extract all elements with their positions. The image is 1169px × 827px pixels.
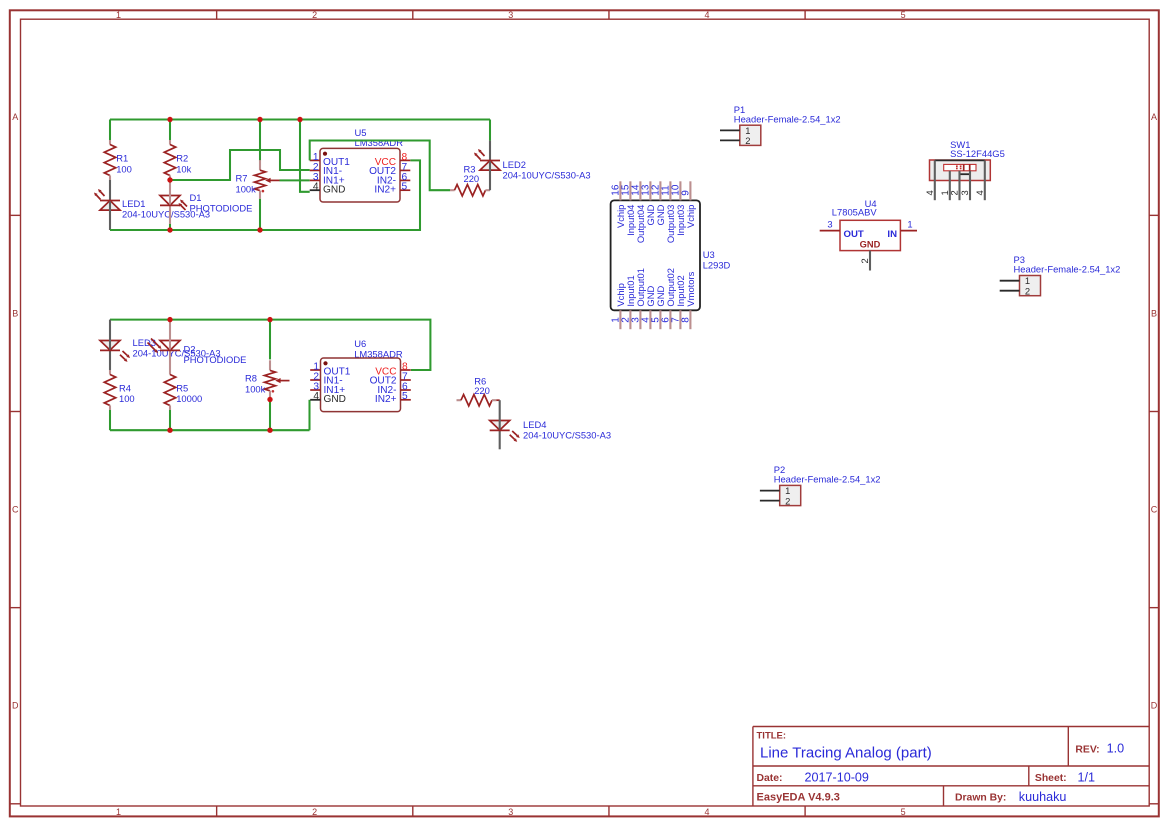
U3 pin 9 Vchip	[689, 181, 691, 200]
svg-text:R5: R5	[176, 383, 188, 394]
wire bottom rail net2	[110, 160, 420, 230]
wire D1 to bottom rail	[169, 224, 171, 230]
wire R7 bottom to rail	[259, 199, 261, 230]
junction rail2 / R8	[267, 317, 272, 322]
svg-text:Header-Female-2.54_1x2: Header-Female-2.54_1x2	[734, 113, 841, 124]
svg-text:GND: GND	[323, 185, 345, 196]
svg-text:C: C	[1151, 505, 1158, 515]
P1 pin 1	[720, 129, 740, 131]
svg-text:1: 1	[116, 10, 121, 20]
svg-text:5: 5	[402, 182, 408, 193]
U3 pin 8 Vmotors	[689, 310, 691, 329]
svg-text:C: C	[12, 505, 19, 515]
svg-text:Vchip: Vchip	[685, 205, 696, 228]
U3 pin 13 GND	[649, 181, 651, 200]
U5 pin 3 IN1+	[310, 179, 320, 181]
svg-text:A: A	[1151, 112, 1157, 122]
op-amp U5 box	[320, 148, 400, 202]
svg-text:Header-Female-2.54_1x2: Header-Female-2.54_1x2	[774, 474, 881, 485]
svg-text:2: 2	[745, 135, 750, 146]
photodiode D1	[160, 196, 180, 206]
U3 pin 2 Input01	[629, 310, 631, 329]
svg-text:D: D	[12, 701, 19, 711]
svg-text:IN: IN	[887, 229, 897, 240]
U3 pin 11 Output03	[669, 181, 671, 200]
SW1 pin 2	[958, 171, 960, 200]
connector P3 body	[1020, 276, 1041, 296]
P2 pin 2	[760, 500, 780, 502]
U3 pin 7 Input02	[679, 310, 681, 329]
wire R5 to bottom rail	[169, 410, 171, 430]
svg-text:100: 100	[116, 163, 132, 174]
svg-text:LED2: LED2	[503, 159, 526, 170]
svg-text:Line Tracing Analog (part): Line Tracing Analog (part)	[760, 745, 932, 762]
svg-text:OUT: OUT	[844, 229, 864, 240]
svg-text:A: A	[12, 112, 18, 122]
resistor R2	[169, 140, 171, 145]
IC U3 box	[611, 200, 700, 310]
U5 pin 4 GND	[310, 189, 320, 191]
U5 pin 5 IN2+	[400, 189, 410, 191]
regulator U4 box	[840, 220, 900, 250]
svg-text:1: 1	[907, 218, 912, 229]
connector P1 body	[740, 125, 761, 145]
U4 pin 3 OUT	[820, 230, 840, 232]
SW1 pin 4	[984, 160, 986, 200]
junction rail2b / R5	[167, 428, 172, 433]
U6 pin 7 OUT2	[401, 379, 411, 381]
svg-text:2: 2	[1025, 285, 1030, 296]
svg-text:9: 9	[681, 190, 692, 196]
U3 pin 1 Vchip	[619, 310, 621, 329]
resistor R1	[109, 140, 111, 145]
junction top rail / R2	[167, 117, 172, 122]
SW1 pin 1	[949, 171, 951, 200]
svg-text:EasyEDA V4.9.3: EasyEDA V4.9.3	[757, 792, 840, 804]
SW1 pin 3	[969, 171, 971, 200]
wire R8 bottom to rail	[269, 398, 271, 430]
SW1 pin 4	[934, 160, 936, 200]
svg-text:Date:: Date:	[757, 773, 783, 784]
U4 pin 2 GND	[869, 251, 871, 271]
svg-text:4: 4	[313, 182, 319, 193]
P3 pin 1	[1000, 280, 1020, 282]
U6 pin 5 IN2+	[401, 399, 411, 401]
svg-text:U5: U5	[355, 127, 367, 138]
resistor R4	[109, 370, 111, 375]
U6 pin 2 IN1-	[310, 379, 320, 381]
svg-text:L7805ABV: L7805ABV	[832, 207, 878, 218]
U5 pin 8 VCC	[400, 159, 410, 161]
potentiometer R7	[259, 160, 261, 170]
svg-text:R8: R8	[245, 373, 257, 384]
svg-text:8: 8	[681, 317, 692, 323]
resistor R3	[450, 189, 455, 191]
wire R2 top drop	[169, 120, 171, 141]
P1 pin 2	[720, 139, 740, 141]
U3 pin 3 Output01	[639, 310, 641, 329]
svg-text:204-10UYC/S530-A3: 204-10UYC/S530-A3	[523, 429, 611, 440]
svg-text:B: B	[12, 308, 18, 318]
op-amp U6 box	[321, 358, 401, 412]
U6 pin 8 VCC	[401, 369, 411, 371]
svg-text:2: 2	[312, 10, 317, 20]
wire R7 top drop	[259, 120, 261, 161]
U3 pin 10 Input03	[679, 181, 681, 200]
svg-text:Sheet:: Sheet:	[1035, 773, 1067, 784]
wire R8 top drop	[269, 320, 271, 360]
U6 pin 1 OUT1	[310, 369, 320, 371]
svg-text:D: D	[1151, 701, 1158, 711]
resistor R6	[457, 399, 462, 401]
svg-text:Drawn By:: Drawn By:	[955, 793, 1006, 804]
U3 pin 5 GND	[659, 310, 661, 329]
switch SW1 body	[930, 160, 991, 181]
svg-text:4: 4	[704, 10, 709, 20]
svg-text:100k: 100k	[236, 184, 257, 195]
svg-text:GND: GND	[860, 240, 881, 250]
node R8 bottom junction	[267, 397, 272, 402]
wire R7 wiper to U5 pin3	[280, 179, 310, 181]
svg-text:GND: GND	[324, 394, 346, 405]
svg-text:1.0: 1.0	[1107, 742, 1125, 756]
wire top rail c2	[110, 320, 430, 370]
svg-text:4: 4	[924, 190, 935, 195]
svg-text:LM358ADR: LM358ADR	[355, 137, 404, 148]
U3 pin 12 GND	[659, 181, 661, 200]
svg-text:4: 4	[313, 391, 319, 402]
U5 pin 6 IN2-	[400, 179, 410, 181]
svg-text:4: 4	[704, 807, 709, 817]
wire top rail net1	[110, 118, 490, 120]
junction top rail / R7	[257, 117, 262, 122]
LED1	[100, 201, 120, 211]
svg-text:100: 100	[119, 393, 135, 404]
svg-text:3: 3	[508, 10, 513, 20]
connector P2 body	[780, 485, 801, 505]
U3 pin 14 Output04	[639, 181, 641, 200]
svg-text:2: 2	[785, 495, 790, 506]
node R2/D1 junction	[167, 177, 172, 182]
svg-text:10000: 10000	[176, 393, 202, 404]
P2 pin 1	[760, 490, 780, 492]
junction top rail / GND drop	[297, 117, 302, 122]
wire GND drop U5 pin4	[300, 120, 310, 192]
U3 pin 15 Input04	[629, 181, 631, 200]
svg-text:PHOTODIODE: PHOTODIODE	[190, 202, 253, 213]
svg-text:220: 220	[474, 385, 490, 396]
svg-text:PHOTODIODE: PHOTODIODE	[184, 354, 247, 365]
title block	[752, 727, 754, 807]
svg-text:2: 2	[859, 258, 870, 263]
LED4	[497, 399, 500, 401]
svg-text:D1: D1	[190, 192, 202, 203]
svg-text:LED4: LED4	[523, 419, 546, 430]
U5 pin 7 OUT2	[400, 169, 410, 171]
svg-text:5: 5	[901, 10, 906, 20]
junction rail2b / R8	[267, 428, 272, 433]
svg-text:REV:: REV:	[1075, 744, 1099, 755]
LED3	[100, 341, 120, 351]
svg-text:B: B	[1151, 308, 1157, 318]
wire IN1- net: R2/D1 junction to U5 pin2	[170, 150, 310, 180]
svg-text:R4: R4	[119, 383, 131, 394]
wire U5 pin1 OUT1 to R3	[310, 141, 450, 191]
svg-text:U3: U3	[703, 249, 715, 260]
svg-text:IN2+: IN2+	[374, 185, 396, 196]
svg-text:Header-Female-2.54_1x2: Header-Female-2.54_1x2	[1014, 264, 1121, 275]
junction bottom rail / R7	[257, 227, 262, 232]
svg-text:R7: R7	[236, 172, 248, 183]
potentiometer R8	[269, 360, 271, 370]
U6 pin 6 IN2-	[401, 389, 411, 391]
wire bottom rail c2	[110, 429, 310, 431]
U3 pin 6 Output02	[669, 310, 671, 329]
svg-text:3: 3	[827, 218, 832, 229]
svg-text:R1: R1	[116, 152, 128, 163]
U3 pin 16 Vchip	[619, 181, 621, 200]
svg-text:204-10UYC/S530-A3: 204-10UYC/S530-A3	[503, 170, 591, 181]
svg-text:5: 5	[402, 391, 408, 402]
photodiode D2	[160, 341, 180, 351]
svg-text:10k: 10k	[176, 163, 191, 174]
svg-text:L293D: L293D	[703, 260, 731, 271]
wire U6 GND pin4 drop	[308, 400, 310, 430]
svg-text:2: 2	[312, 807, 317, 817]
svg-text:Vmotors: Vmotors	[685, 271, 696, 306]
wire R4 to bottom rail	[109, 410, 111, 430]
svg-text:D2: D2	[184, 343, 196, 354]
svg-text:4: 4	[974, 190, 985, 195]
junction bottom rail / D1	[167, 227, 172, 232]
LED2	[489, 120, 491, 141]
P3 pin 2	[1000, 290, 1020, 292]
svg-text:R2: R2	[176, 152, 188, 163]
wire left drop to R1	[109, 120, 111, 141]
svg-text:2017-10-09: 2017-10-09	[805, 770, 869, 784]
svg-text:TITLE:: TITLE:	[757, 730, 787, 741]
svg-text:kuuhaku: kuuhaku	[1019, 790, 1067, 804]
svg-text:2: 2	[949, 190, 960, 195]
SW1 contact bar pins 2-3	[960, 173, 971, 175]
U6 pin 3 IN1+	[310, 389, 320, 391]
svg-text:1: 1	[116, 807, 121, 817]
U5 pin 1 OUT1	[310, 159, 320, 161]
U5 pin 2 IN1-	[310, 169, 320, 171]
U3 pin 4 GND	[649, 310, 651, 329]
svg-text:5: 5	[901, 807, 906, 817]
svg-text:3: 3	[959, 190, 970, 195]
U4 pin 1 IN	[900, 230, 917, 232]
svg-text:100k: 100k	[245, 383, 266, 394]
svg-text:1/1: 1/1	[1078, 770, 1096, 784]
svg-text:IN2+: IN2+	[375, 394, 397, 405]
U6 pin 4 GND	[310, 399, 320, 401]
svg-text:SS-12F44G5: SS-12F44G5	[950, 148, 1005, 159]
resistor R5	[169, 370, 171, 375]
svg-text:3: 3	[508, 807, 513, 817]
junction rail2 / D2	[167, 317, 172, 322]
svg-text:220: 220	[464, 173, 480, 184]
